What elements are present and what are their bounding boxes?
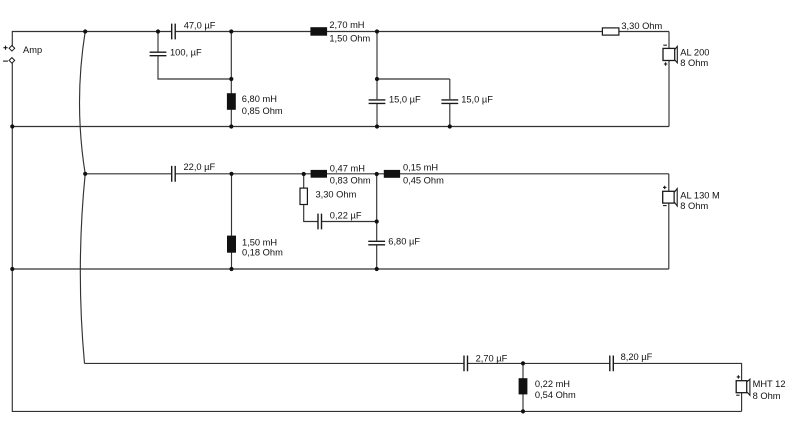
speaker AL 130 M box: [663, 191, 675, 203]
speaker MHT 12 minus mark: [736, 394, 739, 396]
node RC joins shunt: [375, 219, 379, 223]
node rail1 at x=231.3: [229, 124, 233, 128]
svg-text:MHT 12: MHT 12: [753, 379, 786, 389]
svg-text:8 Ohm: 8 Ohm: [680, 58, 708, 68]
node mid at x=303.7: [302, 172, 306, 176]
wire top rail (47uF right plate to AL200 corner): [175, 31, 669, 33]
svg-text:0,54 Ohm: 0,54 Ohm: [535, 390, 576, 400]
svg-text:0,22 mH: 0,22 mH: [535, 379, 570, 389]
speaker AL 130 M horn: [674, 189, 677, 206]
capacitor C 47.0 uF plates: [172, 24, 176, 40]
capacitor C 15.0 uF left plates: [369, 100, 386, 104]
wire 15uF block vertical at x=377 lower: [376, 104, 378, 127]
resistor R 3.30 Ohm (top branch) body: [602, 28, 619, 35]
svg-text:8 Ohm: 8 Ohm: [753, 391, 781, 401]
svg-text:8,20 µF: 8,20 µF: [621, 352, 653, 362]
wire woofer shunt leg at x=231: [230, 32, 232, 127]
svg-text:15,0 µF: 15,0 µF: [389, 95, 421, 105]
wire curve segment 2 (mid junction to bottom branch): [80, 174, 85, 364]
svg-text:0,47 mH: 0,47 mH: [330, 163, 365, 173]
wire mid rail (22uF right plate to AL130M corner): [175, 173, 668, 175]
speaker AL 200 box: [663, 48, 675, 60]
node top junction to curve: [83, 29, 87, 33]
svg-text:0,22 µF: 0,22 µF: [330, 210, 362, 220]
node bottom at x=523: [521, 361, 525, 365]
wire curve segment 1 (top junction to mid junction): [80, 32, 86, 174]
node bottom rail at x=523: [521, 409, 525, 413]
node rail2 at x=231.5: [229, 267, 233, 271]
wire AL200 drop: [668, 32, 670, 127]
svg-text:1,50 Ohm: 1,50 Ohm: [329, 33, 370, 43]
svg-text:0,18 Ohm: 0,18 Ohm: [242, 248, 283, 258]
speaker MHT 12 horn: [747, 379, 750, 395]
node mid tap on curve: [83, 172, 87, 176]
wire 100uF branch down from node: [157, 32, 159, 52]
wire RC branch resistor top lead: [303, 174, 305, 188]
node rail1 at x=449.8: [448, 124, 452, 128]
svg-text:AL 200: AL 200: [680, 48, 709, 58]
svg-text:6,80 mH: 6,80 mH: [242, 94, 277, 104]
wire 15uF block horizontal link: [377, 78, 450, 80]
svg-text:0,15 mH: 0,15 mH: [403, 162, 438, 172]
wire rail 1 (woofer return): [12, 126, 669, 128]
inductor L 0.47 mH body: [311, 170, 327, 178]
wire mid shunt leg at x=376.7 lower: [376, 245, 378, 269]
svg-text:AL 130 M: AL 130 M: [680, 191, 719, 201]
wire tweeter shunt leg at x=523: [522, 363, 524, 411]
svg-text:0,85 Ohm: 0,85 Ohm: [242, 106, 283, 116]
node rail2 at x=376.7: [375, 267, 379, 271]
wire 15uF right vertical upper: [449, 79, 451, 99]
node rail1 at x=377: [375, 124, 379, 128]
wire left return rail (amp - down and bottom rail): [12, 63, 741, 411]
node mid at x=231.5: [229, 172, 233, 176]
speaker MHT 12 plus mark: [737, 375, 740, 378]
speaker AL 130 M minus mark: [663, 205, 667, 207]
svg-text:0,45 Ohm: 0,45 Ohm: [403, 175, 444, 185]
svg-text:2,70 mH: 2,70 mH: [329, 20, 364, 30]
svg-text:3,30 Ohm: 3,30 Ohm: [316, 189, 357, 199]
amp plus terminal: [9, 46, 15, 52]
inductor L 0.15 mH body: [384, 170, 400, 178]
svg-text:2,70 µF: 2,70 µF: [476, 354, 508, 364]
wire 100uF branch to rejoin node: [158, 56, 231, 79]
amp minus mark: [3, 60, 8, 62]
svg-text:6,80 µF: 6,80 µF: [388, 237, 420, 247]
wire 15uF right vertical lower: [449, 104, 451, 127]
inductor L 6.80 mH body: [227, 93, 236, 110]
svg-text:100, µF: 100, µF: [170, 47, 202, 57]
speaker MHT 12 box: [736, 381, 747, 393]
capacitor C 2.70 uF plates: [464, 356, 468, 372]
resistor R 3.30 Ohm (mid RC) body: [300, 188, 307, 204]
capacitor C 8.20 uF plates: [610, 356, 614, 372]
wire top rail (amp + to 47uF left plate): [12, 32, 171, 46]
svg-text:3,30 Ohm: 3,30 Ohm: [621, 21, 662, 31]
capacitor C 15.0 uF right plates: [441, 100, 458, 104]
wire mid shunt leg at x=376.7 upper: [376, 174, 378, 241]
node 47uF/100uF rejoin: [229, 29, 233, 33]
node 47uF/100uF split: [156, 29, 160, 33]
wire rail 2 (mid return): [12, 268, 669, 270]
node top at x=377: [375, 29, 379, 33]
inductor L 1.50 mH body: [227, 236, 236, 253]
wire RC branch resistor bottom lead: [304, 205, 318, 222]
node 15uF link at x=377: [375, 77, 379, 81]
svg-text:Amp: Amp: [23, 45, 42, 55]
inductor L 2.70 mH body: [310, 27, 327, 36]
wire mid shunt leg at x=231.5: [231, 174, 233, 269]
svg-text:47,0 µF: 47,0 µF: [184, 20, 216, 30]
amp minus terminal: [9, 58, 15, 64]
capacitor C 0.22 uF plates: [318, 214, 322, 230]
wire bottom branch (2.7uF to MHT12 drop): [468, 362, 610, 364]
node rail2 at x=12.3: [10, 267, 14, 271]
svg-text:22,0 µF: 22,0 µF: [184, 162, 216, 172]
node mid at x=376.7: [375, 172, 379, 176]
wire 15uF block vertical at x=377 upper: [376, 32, 378, 100]
amp plus mark: [3, 46, 7, 50]
wire bottom branch (curve end to 2.7uF left plate): [85, 362, 464, 364]
capacitor C 6.80 uF plates: [368, 241, 385, 245]
inductor L 0.22 mH body: [519, 378, 528, 394]
speaker AL 200 plus mark: [664, 62, 667, 65]
node rail1 at x=12.3: [10, 124, 14, 128]
svg-text:15,0 µF: 15,0 µF: [461, 95, 493, 105]
speaker AL 200 horn: [675, 46, 678, 62]
capacitor C 22.0 uF plates: [172, 166, 176, 182]
speaker AL 130 M plus mark: [663, 186, 666, 189]
node 100uF bottom to shunt: [229, 77, 233, 81]
speaker AL 200 minus mark: [663, 44, 667, 46]
svg-text:0,83 Ohm: 0,83 Ohm: [330, 176, 371, 186]
wire bottom branch (8.2uF to MHT12 drop): [614, 363, 742, 411]
svg-text:8 Ohm: 8 Ohm: [680, 201, 708, 211]
svg-text:1,50 mH: 1,50 mH: [242, 238, 277, 248]
wire RC branch cap to node: [322, 221, 377, 223]
wire AL130M drop: [668, 174, 670, 269]
wire mid rail (curve tap to 22uF left plate): [85, 173, 171, 175]
capacitor C 100 uF plates: [150, 52, 167, 56]
